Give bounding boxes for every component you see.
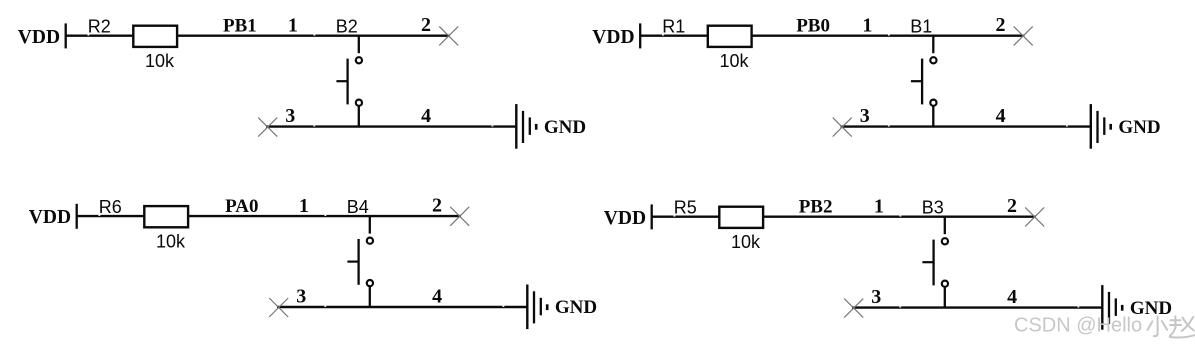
pushbutton B2 actuator stem (circuit 1 top-left) (336, 80, 347, 82)
wire joint notch at pin 1 (circuit 3 bottom-left) (325, 215, 327, 216)
wire joint notch at pin 1 (circuit 2 top-right) (888, 34, 890, 35)
ground symbol bar 2 (circuit 1 top-left) (522, 111, 524, 143)
pushbutton B4 actuator stem (circuit 3 bottom-left) (347, 261, 358, 263)
svg-text:PB1: PB1 (223, 16, 257, 37)
wire joint notch near R5 (circuit 4 bottom-right) (674, 215, 676, 216)
svg-text:2: 2 (421, 14, 431, 36)
svg-text:10k: 10k (720, 51, 750, 71)
ground symbol bar 4 tick (circuit 3 bottom-left) (546, 304, 549, 310)
svg-text:GND: GND (544, 117, 586, 138)
wire joint notch near GND (circuit 1 top-left) (492, 125, 494, 126)
no-connect cross on pin 2 (circuit 1 top-left) (439, 26, 458, 45)
wire joint notch at pin 3 (circuit 3 bottom-left) (324, 306, 326, 307)
svg-text:1: 1 (288, 14, 298, 36)
no-connect cross on pin 2 (circuit 2 top-right) (1014, 26, 1033, 45)
wire stub from B1 pin 3 down to ground rail (circuit 2 top-right) (932, 106, 934, 127)
wire joint notch at pin 3 (circuit 4 bottom-right) (899, 306, 901, 307)
wire: VDD through R6 to pin 2 no-connect (circuit 3 bottom-left) (77, 215, 461, 217)
ground symbol bar 3 (circuit 2 top-right) (1103, 117, 1105, 134)
svg-text:1: 1 (299, 195, 309, 217)
svg-text:B3: B3 (922, 197, 944, 217)
wire joint notch near R2 (circuit 1 top-left) (88, 34, 90, 35)
wire stub from B4 pin 3 down to ground rail (circuit 3 bottom-left) (369, 286, 371, 307)
ground symbol bar 1 (circuit 3 bottom-left) (526, 285, 528, 330)
pushbutton B1 bottom contact (circuit 2 top-right) (930, 100, 936, 106)
svg-text:2: 2 (996, 14, 1006, 36)
wire: pin 3 no-connect to GND (circuit 1 top-left) (266, 125, 516, 127)
ground symbol bar 3 (circuit 1 top-left) (529, 117, 531, 134)
wire joint notch near R1 (circuit 2 top-right) (662, 34, 664, 35)
wire: pin 3 no-connect to GND (circuit 4 bottom-right) (852, 306, 1102, 308)
wire: VDD through R2 to pin 2 no-connect (circuit 1 top-left) (66, 35, 450, 37)
svg-text:1: 1 (862, 14, 872, 36)
wire joint notch at pin 3 (circuit 1 top-left) (313, 125, 315, 126)
svg-text:4: 4 (421, 105, 431, 127)
svg-text:PA0: PA0 (225, 196, 258, 217)
no-connect cross on pin 2 (circuit 3 bottom-left) (450, 207, 469, 226)
wire: VDD through R5 to pin 2 no-connect (circuit 4 bottom-right) (652, 215, 1036, 217)
svg-text:3: 3 (296, 285, 306, 307)
pushbutton B3 actuator stem (circuit 4 bottom-right) (922, 261, 933, 263)
wire joint notch near R6 (circuit 3 bottom-left) (99, 215, 101, 216)
wire joint notch near GND (circuit 4 bottom-right) (1078, 306, 1080, 307)
pushbutton B1 actuator stem (circuit 2 top-right) (911, 80, 922, 82)
VDD power port bar (circuit 3 bottom-left) (76, 204, 78, 229)
svg-text:1: 1 (874, 195, 884, 217)
pushbutton B3 actuator plate (circuit 4 bottom-right) (932, 240, 934, 286)
ground symbol bar 2 (circuit 3 bottom-left) (533, 291, 535, 323)
ground symbol bar 4 tick (circuit 1 top-left) (535, 124, 538, 130)
wire joint notch at pin 1 (circuit 4 bottom-right) (900, 215, 902, 216)
wire joint notch at pin 1 (circuit 1 top-left) (314, 34, 316, 35)
no-connect cross on pin 2 (circuit 4 bottom-right) (1025, 207, 1044, 226)
ground symbol bar 1 (circuit 2 top-right) (1090, 104, 1092, 149)
pushbutton B1 actuator plate (circuit 2 top-right) (921, 59, 923, 105)
pushbutton B4 bottom contact (circuit 3 bottom-left) (367, 280, 373, 286)
watermark glyph zhao (1170, 316, 1195, 337)
pushbutton B2 bottom contact (circuit 1 top-left) (356, 100, 362, 106)
wire: VDD through R1 to pin 2 no-connect (circuit 2 top-right) (640, 35, 1024, 37)
wire joint notch near GND (circuit 3 bottom-left) (503, 306, 505, 307)
svg-text:10k: 10k (145, 51, 175, 71)
svg-text:2: 2 (432, 195, 442, 217)
ground symbol bar 3 (circuit 4 bottom-right) (1115, 298, 1117, 316)
svg-text:VDD: VDD (604, 208, 646, 229)
svg-text:PB2: PB2 (799, 197, 833, 218)
watermark glyph xiao (1148, 316, 1168, 336)
ground symbol bar 4 tick (circuit 4 bottom-right) (1121, 305, 1124, 311)
svg-text:R5: R5 (674, 197, 697, 217)
wire joint notch at pin 3 (circuit 2 top-right) (888, 125, 890, 126)
wire: pin 3 no-connect to GND (circuit 3 bottom-left) (277, 306, 527, 308)
svg-text:R2: R2 (88, 16, 111, 36)
svg-text:3: 3 (860, 105, 870, 127)
VDD power port bar (circuit 4 bottom-right) (651, 204, 653, 229)
ground symbol bar 3 (circuit 3 bottom-left) (540, 298, 542, 316)
svg-text:R6: R6 (99, 197, 122, 217)
no-connect cross on pin 3 (circuit 2 top-right) (833, 118, 852, 137)
resistor R1 body (circuit 2 top-right) (708, 26, 752, 47)
svg-text:VDD: VDD (592, 27, 634, 48)
svg-text:PB0: PB0 (796, 16, 830, 37)
svg-text:3: 3 (285, 105, 295, 127)
ground symbol bar 2 (circuit 4 bottom-right) (1108, 292, 1110, 324)
wire: pin 3 no-connect to GND (circuit 2 top-right) (841, 125, 1091, 127)
resistor R2 body (circuit 1 top-left) (133, 26, 177, 47)
svg-text:4: 4 (996, 105, 1006, 127)
svg-text:VDD: VDD (18, 27, 60, 48)
no-connect cross on pin 3 (circuit 1 top-left) (258, 118, 277, 137)
wire stub from B2 pin 3 down to ground rail (circuit 1 top-left) (358, 106, 360, 127)
svg-text:B2: B2 (336, 16, 358, 36)
pushbutton B3 top contact (circuit 4 bottom-right) (942, 238, 948, 244)
svg-text:2: 2 (1007, 195, 1017, 217)
svg-text:3: 3 (871, 286, 881, 308)
svg-text:B4: B4 (347, 197, 369, 217)
svg-text:10k: 10k (156, 231, 186, 251)
svg-text:VDD: VDD (29, 207, 71, 228)
wire joint notch near GND (circuit 2 top-right) (1066, 125, 1068, 126)
resistor R5 body (circuit 4 bottom-right) (719, 207, 763, 228)
pushbutton B2 top contact (circuit 1 top-left) (356, 57, 362, 63)
svg-text:B1: B1 (910, 16, 932, 36)
wire stub from net PB2 down to B3 pin 1 (circuit 4 bottom-right) (944, 217, 946, 235)
wire stub from B3 pin 3 down to ground rail (circuit 4 bottom-right) (944, 287, 946, 308)
no-connect cross on pin 3 (circuit 3 bottom-left) (269, 298, 288, 317)
pushbutton B3 bottom contact (circuit 4 bottom-right) (942, 281, 948, 287)
svg-text:R1: R1 (662, 16, 685, 36)
VDD power port bar (circuit 1 top-left) (65, 23, 67, 48)
wire stub from net PB0 down to B1 pin 1 (circuit 2 top-right) (932, 36, 934, 54)
svg-text:GND: GND (1118, 117, 1160, 138)
VDD power port bar (circuit 2 top-right) (639, 23, 641, 48)
ground symbol bar 1 (circuit 1 top-left) (515, 104, 517, 149)
pushbutton B4 top contact (circuit 3 bottom-left) (367, 238, 373, 244)
svg-text:4: 4 (1007, 286, 1017, 308)
svg-text:10k: 10k (731, 232, 761, 252)
wire stub from net PB1 down to B2 pin 1 (circuit 1 top-left) (358, 36, 360, 54)
wire stub from net PA0 down to B4 pin 1 (circuit 3 bottom-left) (369, 216, 371, 234)
ground symbol bar 4 tick (circuit 2 top-right) (1109, 124, 1112, 130)
pushbutton B4 actuator plate (circuit 3 bottom-left) (357, 239, 359, 285)
resistor R6 body (circuit 3 bottom-left) (144, 206, 188, 227)
svg-text:4: 4 (432, 285, 442, 307)
pushbutton B2 actuator plate (circuit 1 top-left) (346, 59, 348, 105)
ground symbol bar 1 (circuit 4 bottom-right) (1101, 285, 1103, 330)
svg-text:GND: GND (555, 297, 597, 318)
no-connect cross on pin 3 (circuit 4 bottom-right) (844, 299, 863, 318)
pushbutton B1 top contact (circuit 2 top-right) (930, 57, 936, 63)
svg-text:CSDN @Hello: CSDN @Hello (1014, 315, 1142, 337)
ground symbol bar 2 (circuit 2 top-right) (1096, 111, 1098, 143)
